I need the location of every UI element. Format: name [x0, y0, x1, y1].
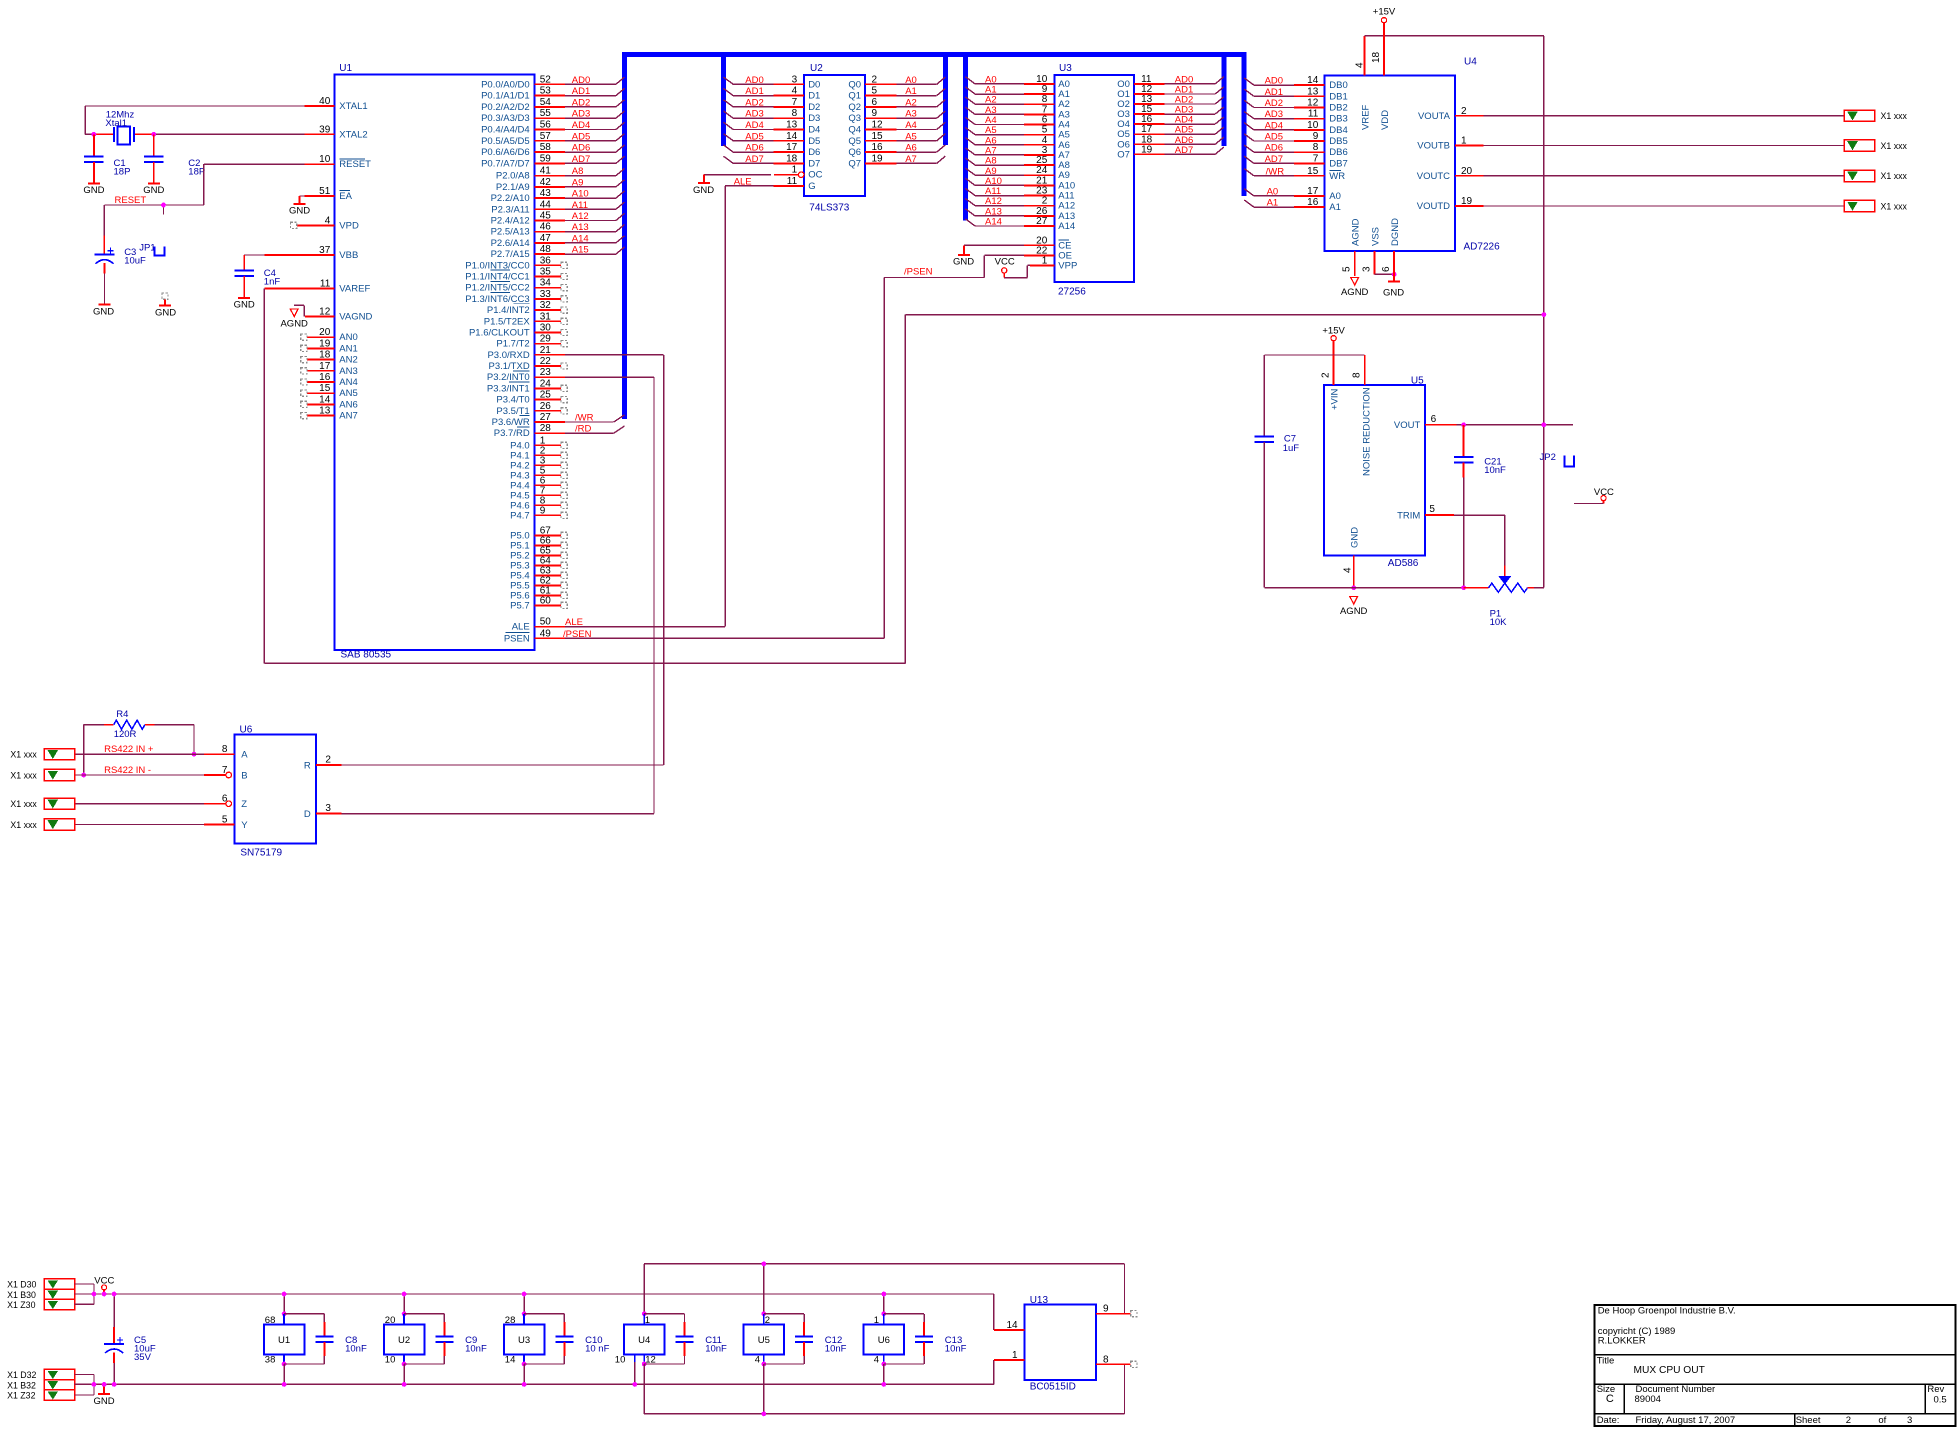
svg-text:P2.4/A12: P2.4/A12 [491, 216, 530, 227]
svg-text:14: 14 [786, 131, 798, 142]
svg-text:20: 20 [1461, 166, 1473, 177]
svg-text:P0.3/A3/D3: P0.3/A3/D3 [481, 113, 530, 124]
power +15V at U5 [1322, 326, 1345, 341]
U4 pin 16 A1 <- net A1 [1244, 197, 1341, 213]
svg-text:2: 2 [872, 74, 878, 85]
svg-text:13: 13 [319, 406, 331, 417]
svg-text:15: 15 [319, 383, 331, 394]
U2 pin 13 D4 <- net AD4 [724, 120, 821, 136]
svg-text:Sheet: Sheet [1796, 1415, 1821, 1426]
svg-text:DB4: DB4 [1329, 125, 1347, 136]
svg-text:X1 xxx: X1 xxx [10, 820, 37, 830]
U1 pin 29 P1.7/T2 (n.c.) [496, 334, 567, 350]
svg-text:GND: GND [953, 257, 974, 268]
svg-text:A14: A14 [985, 217, 1002, 228]
capacitor C7 1uF [1255, 355, 1300, 588]
svg-text:56: 56 [540, 120, 552, 131]
wire net /PSEN from U1 to U3.OE [565, 255, 984, 638]
svg-text:A: A [241, 750, 248, 761]
ground GND at U2 OC [693, 175, 714, 196]
svg-text:18P: 18P [188, 166, 205, 177]
svg-text:A6: A6 [905, 143, 917, 154]
svg-text:41: 41 [540, 166, 552, 177]
svg-text:NOISE REDUCTION: NOISE REDUCTION [1362, 387, 1373, 476]
U1 pin 23 P3.2/INT0 wire to U6 D [487, 367, 654, 383]
bypass block U1 with capacitor C8 [264, 1294, 367, 1384]
svg-text:4: 4 [755, 1354, 760, 1365]
U1 pin 17 AN3 (n.c.) [301, 361, 358, 377]
svg-text:DB7: DB7 [1329, 158, 1347, 169]
svg-text:30: 30 [540, 323, 552, 334]
U3 pin 22 OE <- net /PSEN [984, 245, 1072, 261]
svg-text:A10: A10 [572, 189, 589, 200]
U5 pin 8 NOISE REDUCTION (top) [1352, 355, 1373, 476]
U4 pin 9 DB5 <- net AD5 [1244, 131, 1348, 147]
U1 pin 46 P2.5/A13 -> net A13 [491, 222, 625, 238]
svg-text:10 nF: 10 nF [585, 1344, 609, 1355]
power +15V at U4 VDD [1373, 7, 1396, 23]
U1 pin 10 RESET [304, 154, 371, 170]
voltage reference U5 (AD586) body [1324, 385, 1425, 555]
svg-text:29: 29 [540, 334, 552, 345]
bypass block U4 with capacitor C11 [615, 1264, 727, 1414]
svg-text:28: 28 [505, 1315, 516, 1326]
svg-text:21: 21 [540, 345, 552, 356]
svg-text:Xtal1: Xtal1 [105, 118, 127, 129]
svg-text:19: 19 [872, 153, 884, 164]
U4 pin 12 DB2 <- net AD2 [1244, 98, 1348, 114]
svg-text:GND: GND [289, 205, 310, 216]
svg-text:DB3: DB3 [1329, 114, 1347, 125]
svg-text:68: 68 [265, 1315, 276, 1326]
power VCC symbol (bottom) [94, 1275, 114, 1294]
svg-text:AN0: AN0 [339, 332, 357, 343]
U4 pin 4 VREF (top) [1355, 36, 1372, 130]
svg-text:Z: Z [241, 799, 247, 810]
svg-text:5: 5 [1429, 504, 1435, 515]
svg-text:3: 3 [792, 74, 798, 85]
svg-text:A8: A8 [572, 166, 584, 177]
svg-text:XTAL2: XTAL2 [339, 129, 367, 140]
svg-text:R: R [304, 761, 311, 772]
svg-text:X1 D30: X1 D30 [7, 1280, 36, 1290]
wire +15V to U5 +VIN and NOISE REDUCTION [1264, 341, 1364, 355]
power VCC at U3 VPP [995, 256, 1015, 277]
svg-text:32: 32 [540, 300, 552, 311]
wire +15V vertical right of U4 [1543, 36, 1545, 588]
U1 pin 20 AN0 (n.c.) [301, 327, 358, 343]
svg-text:8: 8 [1352, 372, 1363, 378]
U2 pin 4 D1 <- net AD1 [724, 86, 821, 102]
U1 pin 32 P1.4/INT2 (n.c.) [487, 300, 567, 316]
U1 pin 66 P5.1 (n.c.) [510, 535, 567, 551]
svg-text:18: 18 [786, 153, 798, 164]
U1 pin 34 P1.2/INT5/CC2 (n.c.) [465, 278, 567, 294]
capacitor C2 18P [144, 134, 205, 183]
svg-text:33: 33 [540, 289, 552, 300]
svg-text:89004: 89004 [1635, 1394, 1661, 1405]
node junction VREF net at x=1543.9 y=314.6 [1542, 312, 1547, 317]
svg-text:8: 8 [1313, 142, 1319, 153]
svg-text:D4: D4 [808, 125, 820, 136]
U4 pin 1 VOUTB wire to connector [1417, 136, 1844, 152]
svg-text:17: 17 [319, 361, 331, 372]
active-low underlines on U1 pin names [491, 270, 530, 427]
wire XTAL2 from crystal to U1 [154, 133, 304, 135]
U1 pin 30 P1.6/CLKOUT (n.c.) [469, 323, 567, 339]
svg-text:AD1: AD1 [745, 86, 763, 97]
svg-text:DB2: DB2 [1329, 103, 1347, 114]
svg-text:1: 1 [1042, 255, 1048, 266]
svg-text:/WR: /WR [575, 413, 594, 424]
U2 pin 7 D2 <- net AD2 [724, 97, 821, 113]
svg-text:AD0: AD0 [572, 75, 590, 86]
svg-text:3: 3 [325, 803, 331, 814]
U4 pin 5 AGND (bottom) [1342, 218, 1362, 276]
svg-text:10nF: 10nF [705, 1344, 727, 1355]
svg-text:10: 10 [615, 1354, 626, 1365]
ground GND under U4 [1383, 282, 1404, 299]
ground GND under C4 [234, 298, 255, 311]
svg-text:7: 7 [222, 765, 228, 776]
svg-text:AN6: AN6 [339, 399, 357, 410]
U3 pin 6 A4 <- net A4 [965, 115, 1070, 131]
svg-text:A11: A11 [572, 200, 588, 211]
U4 pin 14 DB0 <- net AD0 [1244, 75, 1348, 91]
svg-text:X1 Z32: X1 Z32 [7, 1391, 35, 1401]
node junction at C2/crystal [151, 132, 156, 137]
U4 pin 8 DB6 <- net AD6 [1244, 142, 1348, 158]
node junction D30 wires on VCC rail [92, 1292, 97, 1297]
svg-text:U4: U4 [1464, 57, 1477, 68]
svg-text:P0.1/A1/D1: P0.1/A1/D1 [481, 91, 530, 102]
svg-text:U6: U6 [240, 725, 253, 736]
U1 pin 21 P3.0/RXD wire to U6 R [487, 345, 663, 361]
svg-text:VOUTA: VOUTA [1418, 111, 1451, 122]
svg-text:1: 1 [874, 1315, 879, 1326]
U1 pin 8 P4.6 (n.c.) [510, 495, 567, 511]
svg-text:13: 13 [1307, 86, 1319, 97]
svg-text:P0.0/A0/D0: P0.0/A0/D0 [481, 79, 530, 90]
svg-text:AD3: AD3 [1265, 109, 1283, 120]
svg-text:AGND: AGND [1351, 218, 1362, 246]
svg-text:14: 14 [505, 1354, 516, 1365]
svg-text:D2: D2 [808, 102, 820, 113]
svg-text:X1 B30: X1 B30 [7, 1290, 36, 1300]
svg-text:Q2: Q2 [848, 102, 861, 113]
U4 pin 10 DB4 <- net AD4 [1244, 120, 1348, 136]
svg-text:6: 6 [1431, 414, 1437, 425]
svg-text:Date:: Date: [1597, 1415, 1620, 1426]
U4 pin 11 DB3 <- net AD3 [1244, 109, 1348, 125]
svg-text:B: B [241, 771, 247, 782]
svg-text:4: 4 [1355, 62, 1366, 68]
svg-text:4: 4 [792, 86, 798, 97]
svg-text:RESET: RESET [339, 159, 371, 170]
svg-text:AN4: AN4 [339, 377, 357, 388]
svg-text:12: 12 [319, 306, 331, 317]
svg-text:10nF: 10nF [825, 1344, 847, 1355]
node junction VOUT/C21 [1461, 422, 1466, 427]
potentiometer P1 10K [1464, 515, 1544, 628]
U3 pin 11 O0 -> net AD0 [1117, 74, 1224, 90]
svg-text:AD6: AD6 [1265, 143, 1283, 154]
svg-text:11: 11 [1308, 109, 1319, 120]
U2 pin 5 Q1 -> net A1 [848, 86, 945, 102]
svg-text:VPP: VPP [1058, 260, 1077, 271]
U1 pin 3 P4.2 (n.c.) [510, 455, 567, 471]
svg-text:RS422 IN +: RS422 IN + [104, 744, 154, 755]
node junction VSS/DGND [1392, 272, 1397, 277]
U2 pin 8 D3 <- net AD3 [724, 108, 821, 124]
svg-text:BC0515ID: BC0515ID [1030, 1382, 1076, 1393]
labels X1 D32/B32/Z32 [7, 1370, 36, 1401]
U6 pin 2 R output wire to U1 RXD [304, 355, 664, 772]
U3 pin 15 O3 -> net AD3 [1117, 104, 1224, 120]
svg-text:1: 1 [1461, 136, 1467, 147]
U3 pin 9 A1 <- net A1 [965, 84, 1070, 100]
svg-text:52: 52 [540, 74, 552, 85]
svg-text:11: 11 [320, 279, 331, 290]
U4 pin 20 VOUTC wire to connector [1417, 166, 1844, 182]
U1 pin 48 P2.7/A15 -> net A15 [491, 244, 625, 260]
svg-text:AN3: AN3 [339, 366, 357, 377]
latch U2 (74LS373) body [804, 75, 865, 196]
connector X1 D30/B30/Z30 (power in) [44, 1279, 74, 1310]
svg-text:U2: U2 [398, 1335, 410, 1346]
svg-text:1: 1 [792, 165, 798, 176]
svg-text:R4: R4 [116, 709, 128, 720]
U2 pin 17 D6 <- net AD6 [724, 142, 821, 158]
svg-text:P3.4/T0: P3.4/T0 [496, 395, 529, 406]
U1 pin 12 VAGND [305, 306, 373, 322]
svg-text:O7: O7 [1117, 149, 1130, 160]
U3 pin 5 A5 <- net A5 [965, 125, 1070, 141]
EPROM U3 (27256) body [1054, 75, 1134, 282]
svg-text:D7: D7 [808, 158, 820, 169]
U1 pin 1 P4.0 (n.c.) [510, 435, 567, 451]
U3 pin 8 A2 <- net A2 [965, 94, 1070, 110]
U5 pin 2 +VIN (top) [1321, 355, 1341, 410]
svg-text:6: 6 [222, 794, 228, 805]
svg-text:P2.3/A11: P2.3/A11 [491, 204, 529, 215]
svg-text:44: 44 [540, 199, 552, 210]
U5 pin 5 TRIM [1397, 504, 1505, 521]
svg-text:Y: Y [241, 820, 248, 831]
svg-text:35: 35 [540, 267, 552, 278]
U13 pin 1 from GND rail [994, 1350, 1025, 1384]
JP1 pin 2 terminal to ground [162, 293, 168, 306]
resistor R4 120R [84, 709, 194, 775]
svg-text:19: 19 [1461, 196, 1473, 207]
svg-text:1nF: 1nF [264, 276, 281, 287]
svg-text:A0: A0 [1329, 191, 1341, 202]
U1 pin 39 XTAL2 [304, 124, 367, 140]
U6 pin 7 B input wire [75, 765, 248, 782]
svg-text:A2: A2 [905, 97, 917, 108]
bus: vertical segment feeding U4 data pins [1242, 52, 1247, 196]
node junction R4/A wire [192, 752, 197, 757]
svg-text:VOUTD: VOUTD [1417, 201, 1450, 212]
svg-text:Q3: Q3 [848, 113, 861, 124]
ground GND at U3 CE [953, 245, 974, 267]
wire net VREF/VAREF long run [264, 289, 1544, 664]
U6 pin 3 D input wire from U1 INT0 [304, 377, 654, 820]
svg-text:10nF: 10nF [345, 1344, 367, 1355]
svg-text:AD5: AD5 [745, 131, 763, 142]
U1 pin 18 AN2 (n.c.) [301, 350, 358, 366]
svg-text:58: 58 [540, 142, 552, 153]
svg-text:AN7: AN7 [339, 411, 357, 422]
svg-text:A15: A15 [572, 245, 589, 256]
svg-text:VOUT: VOUT [1394, 420, 1421, 431]
U4 pin 3 VSS (bottom) [1362, 227, 1395, 274]
capacitor C4 1nF [234, 255, 280, 298]
U3 pin 26 A13 <- net A13 [965, 206, 1075, 222]
svg-text:AD7: AD7 [1265, 154, 1283, 165]
svg-text:14: 14 [1006, 1320, 1018, 1331]
svg-text:X1 xxx: X1 xxx [1881, 111, 1908, 121]
svg-text:15: 15 [872, 131, 884, 142]
U1 pin 55 P0.3/A3/D3 -> net AD3 [481, 108, 624, 124]
svg-text:VAREF: VAREF [339, 284, 370, 295]
U2 pin 2 Q0 -> net A0 [848, 74, 945, 90]
U2 pin 3 D0 <- net AD0 [724, 74, 821, 90]
U1 pin 67 P5.0 (n.c.) [510, 525, 567, 541]
U1 pin 14 AN6 (n.c.) [301, 394, 358, 410]
svg-text:6: 6 [872, 97, 878, 108]
U1 pin 2 P4.1 (n.c.) [510, 445, 567, 461]
title block frame [1595, 1305, 1956, 1426]
svg-text:P0.2/A2/D2: P0.2/A2/D2 [481, 102, 530, 113]
U3 pin 24 A9 <- net A9 [965, 165, 1070, 181]
svg-text:P1.4/INT2: P1.4/INT2 [487, 305, 530, 316]
svg-text:48: 48 [540, 244, 552, 255]
svg-text:12: 12 [645, 1354, 656, 1365]
svg-text:10nF: 10nF [945, 1344, 967, 1355]
U2 pin 12 Q4 -> net A4 [848, 120, 945, 136]
svg-text:7: 7 [792, 97, 798, 108]
U6 pin 5 Y input wire [75, 815, 249, 832]
connector X1 xxx at VOUTB [1844, 140, 1875, 151]
svg-text:GND: GND [83, 185, 104, 196]
svg-text:120R: 120R [114, 729, 137, 740]
U1 pin 64 P5.3 (n.c.) [510, 555, 567, 571]
svg-text:5: 5 [1342, 266, 1353, 272]
svg-text:36: 36 [540, 255, 552, 266]
U1 pin 62 P5.5 (n.c.) [510, 575, 567, 591]
svg-text:P2.5/A13: P2.5/A13 [491, 227, 530, 238]
svg-text:AD1: AD1 [1265, 87, 1283, 98]
U2 pin 19 Q7 -> net A7 [848, 153, 945, 169]
svg-text:U4: U4 [638, 1335, 650, 1346]
U1 pin 35 P1.1/INT4/CC1 (n.c.) [465, 267, 567, 283]
jumper JP1 [139, 243, 164, 256]
svg-text:23: 23 [540, 367, 552, 378]
svg-text:A1: A1 [1267, 198, 1279, 209]
svg-text:VREF: VREF [1361, 104, 1372, 130]
svg-text:DB0: DB0 [1329, 80, 1347, 91]
U1 pin 56 P0.4/A4/D4 -> net AD4 [481, 120, 624, 136]
svg-text:U5: U5 [1411, 376, 1424, 387]
ground GND symbol (bottom) [93, 1384, 114, 1407]
U1 pin 61 P5.6 (n.c.) [510, 585, 567, 601]
U1 pin 44 P2.3/A11 -> net A11 [491, 199, 624, 215]
U2 pin 9 Q3 -> net A3 [848, 108, 945, 124]
svg-text:U3: U3 [518, 1335, 530, 1346]
svg-text:38: 38 [265, 1354, 276, 1365]
svg-text:P1.6/CLKOUT: P1.6/CLKOUT [469, 328, 530, 339]
svg-text:74LS373: 74LS373 [809, 203, 849, 214]
U2 pin 11 G <- net ALE [725, 176, 815, 192]
svg-text:37: 37 [319, 245, 331, 256]
ground GND under C1 [83, 183, 104, 196]
U5 pin 6 VOUT [1394, 414, 1573, 431]
svg-text:22: 22 [540, 356, 552, 367]
U3 pin 21 A10 <- net A10 [965, 175, 1075, 191]
U2 pin 14 D5 <- net AD5 [724, 131, 821, 147]
U1 pin 49 PSEN -> net /PSEN [504, 628, 592, 644]
U1 pin 36 P1.0/INT3/CC0 (n.c.) [465, 255, 567, 271]
capacitor C5 10uF 35V electrolytic [104, 1294, 156, 1384]
U1 pin 11 VAREF [264, 279, 370, 295]
svg-text:VAGND: VAGND [339, 311, 372, 322]
power VCC at JP2 [1574, 487, 1614, 504]
svg-text:7: 7 [1313, 153, 1319, 164]
svg-text:X1 Z30: X1 Z30 [7, 1300, 35, 1310]
svg-text:18: 18 [319, 350, 331, 361]
svg-text:AGND: AGND [280, 319, 308, 330]
U1 pin 26 P3.5/T1 (n.c.) [496, 401, 567, 417]
U1 pin 41 P2.0/A8 -> net A8 [496, 166, 625, 182]
svg-text:P0.5/A5/D5: P0.5/A5/D5 [481, 136, 530, 147]
node junction C21 / AGND rail [1461, 585, 1466, 590]
svg-text:D5: D5 [808, 136, 820, 147]
U1 pin 54 P0.2/A2/D2 -> net AD2 [481, 97, 624, 113]
capacitor C3 10uF electrolytic [95, 236, 147, 304]
svg-text:Title: Title [1597, 1356, 1615, 1367]
svg-text:P5.7: P5.7 [510, 600, 530, 611]
svg-text:P3.3/INT1: P3.3/INT1 [487, 383, 530, 394]
U1 pin 60 P5.7 (n.c.) [510, 595, 567, 611]
svg-text:2: 2 [765, 1315, 770, 1326]
svg-text:D3: D3 [808, 113, 820, 124]
svg-text:4: 4 [1343, 567, 1354, 573]
svg-text:De Hoop Groenpol Industrie B.V: De Hoop Groenpol Industrie B.V. [1598, 1305, 1736, 1316]
svg-text:46: 46 [540, 222, 552, 233]
svg-text:A1: A1 [905, 86, 917, 97]
svg-text:AD7: AD7 [572, 154, 590, 165]
svg-text:P2.1/A9: P2.1/A9 [496, 182, 530, 193]
U1 pin 65 P5.2 (n.c.) [510, 545, 567, 561]
svg-text:RESET: RESET [115, 195, 147, 206]
svg-text:34: 34 [540, 278, 552, 289]
svg-text:U5: U5 [758, 1335, 770, 1346]
svg-text:60: 60 [540, 595, 552, 606]
U2 pin 1 OC (grounded) [704, 165, 822, 181]
svg-text:AD6: AD6 [572, 143, 590, 154]
bus: vertical segment from U2 Q outputs [943, 52, 948, 145]
svg-text:VPD: VPD [339, 220, 359, 231]
bus: vertical segment left of U2 (from U1) [622, 52, 627, 419]
svg-text:A0: A0 [905, 75, 917, 86]
svg-text:20: 20 [385, 1315, 396, 1326]
svg-text:1: 1 [645, 1315, 650, 1326]
U3 pin 27 A14 <- net A14 [965, 216, 1075, 232]
node junction VOUT/+15V vertical [1542, 422, 1547, 427]
svg-text:AD0: AD0 [1265, 76, 1283, 87]
svg-text:P2.6/A14: P2.6/A14 [491, 238, 530, 249]
